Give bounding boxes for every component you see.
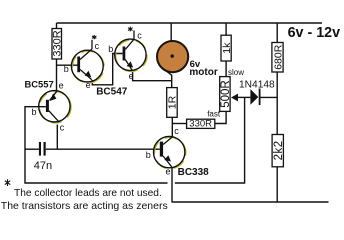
svg-text:e: e (129, 71, 134, 81)
svg-text:1k: 1k (221, 42, 233, 54)
svg-text:fast: fast (207, 110, 221, 119)
svg-text:1N4148: 1N4148 (239, 79, 275, 90)
svg-text:1R: 1R (167, 95, 179, 109)
svg-text:BC338: BC338 (178, 167, 210, 178)
svg-text:b: b (64, 64, 69, 74)
svg-text:b: b (146, 150, 151, 160)
svg-text:e: e (86, 80, 91, 90)
svg-text:slow: slow (228, 68, 244, 77)
svg-text:c: c (60, 122, 65, 132)
svg-text:b: b (32, 107, 37, 117)
svg-text:330R: 330R (52, 30, 64, 56)
svg-text:c: c (174, 126, 179, 136)
svg-text:47n: 47n (34, 160, 52, 172)
svg-text:The collector leads are not us: The collector leads are not used. (14, 188, 162, 199)
svg-text:680R: 680R (272, 44, 284, 70)
svg-text:BC547: BC547 (96, 87, 128, 98)
svg-text:b: b (108, 44, 113, 54)
svg-text:500R: 500R (220, 80, 232, 108)
svg-text:The transistors are acting as: The transistors are acting as zeners (1, 200, 168, 212)
svg-text:motor: motor (189, 67, 217, 78)
svg-text:330R: 330R (189, 118, 212, 129)
svg-text:6v - 12v: 6v - 12v (288, 25, 341, 41)
svg-text:2k2: 2k2 (273, 140, 285, 160)
svg-text:e: e (166, 167, 171, 177)
svg-text:BC557: BC557 (25, 78, 54, 89)
svg-text:c: c (137, 30, 142, 40)
svg-text:c: c (95, 41, 100, 51)
svg-text:e: e (59, 80, 64, 90)
